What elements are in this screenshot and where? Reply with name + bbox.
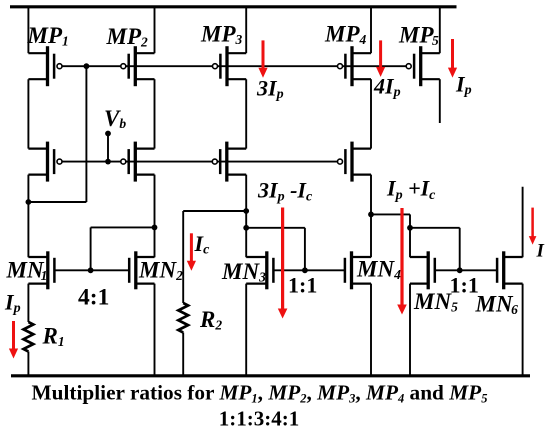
wire VDD to MP5 source (439, 7, 441, 53)
wire MN3-MN4 gate line (274, 269, 345, 271)
svg-text:1:1: 1:1 (288, 272, 317, 297)
wire MN5-MN6 gate line (435, 269, 497, 271)
wire R2 branch vertical (182, 211, 184, 303)
node MN3 drain (243, 225, 249, 231)
node Vb terminal (105, 131, 111, 137)
svg-text:4Ip: 4Ip (373, 73, 401, 100)
transistor MP1 (28, 46, 62, 86)
transistor MP2 (121, 46, 155, 86)
transistor cascode under MP2 (121, 142, 155, 182)
wire down to MN5 drain node (409, 214, 411, 227)
svg-text:Ip: Ip (455, 72, 472, 99)
wire R2 to ground (182, 333, 184, 376)
transistor MN2 (129, 251, 154, 289)
resistor R2 (178, 303, 188, 333)
node MN1 gate junction (88, 267, 94, 273)
svg-text:MP3: MP3 (200, 22, 243, 48)
wire cascode drain to MN1 drain (27, 175, 29, 258)
wire MN2 diode vertical (90, 227, 92, 270)
node MN5 gate junction (457, 267, 463, 273)
svg-text:MP1: MP1 (27, 23, 69, 49)
svg-text:3Ip: 3Ip (256, 75, 284, 102)
wire MN4 source to ground (370, 284, 372, 376)
wire diode connection MP1 (28, 201, 87, 203)
transistor MP3 (213, 46, 247, 86)
wire MP3 drain to cascode source (245, 79, 247, 148)
node MP1 gate junction (84, 63, 90, 69)
wire MN5 diode horizontal (410, 227, 460, 229)
current arrow Ip at MP5 (448, 39, 457, 78)
wire MN3 diode horizontal (246, 227, 305, 229)
svg-text:MP4: MP4 (324, 22, 367, 48)
svg-text:Multiplier ratios for MP1, MP2: Multiplier ratios for MP1, MP2, MP3, MP4… (32, 380, 488, 405)
svg-text:MN1: MN1 (6, 257, 48, 283)
wire VDD to MP1 source (27, 7, 29, 53)
current arrow Ip through R1 (9, 321, 18, 359)
wire MN2 source to ground (154, 284, 156, 376)
wire output I terminal (522, 187, 524, 258)
svg-text:1:1:3:4:1: 1:1:3:4:1 (219, 406, 299, 430)
svg-text:Ip: Ip (4, 289, 21, 316)
wire MN5 diode vertical (459, 228, 461, 270)
current arrow Ip+Ic (397, 208, 407, 315)
wire cascode drain to MN3 drain (245, 175, 247, 258)
transistor MN5 (410, 251, 435, 289)
wire MN5 source to ground (409, 284, 411, 376)
svg-text:Ic: Ic (194, 231, 211, 258)
wire MN6 source to ground (522, 284, 524, 376)
svg-text:MN2: MN2 (138, 257, 183, 283)
node MN5 drain (407, 225, 413, 231)
wire MP2 drain to cascode source (154, 79, 156, 148)
wire MP4 drain to cascode source (370, 79, 372, 148)
svg-text:MN3: MN3 (221, 259, 266, 285)
node 3Ip-Ic (243, 208, 249, 214)
wire Ip+Ic node right (371, 213, 410, 215)
node MN2 drain (152, 225, 158, 231)
wire gate-junction down (85, 66, 87, 202)
transistor cascode under MP1 (28, 142, 62, 182)
svg-text:Ip +Ic: Ip +Ic (386, 176, 436, 203)
transistor MN1 (28, 251, 54, 289)
resistor R1 (24, 322, 34, 352)
wire PMOS mirror gate line (61, 65, 408, 67)
wire MP1 drain to cascode source (27, 79, 29, 148)
transistor MN4 (345, 251, 371, 289)
current arrow 4Ip (376, 40, 385, 77)
node Ip+Ic (368, 212, 374, 218)
transistor MN6 (497, 251, 522, 289)
wire cascode drain to MN2 drain (154, 175, 156, 258)
svg-text:MP5: MP5 (398, 23, 439, 49)
current arrow 3Ip (258, 40, 267, 77)
wire cascode gate line (61, 161, 339, 163)
node MP1 drain junction (26, 199, 32, 205)
wire VDD top rail (10, 5, 457, 8)
wire node to R2 (183, 210, 246, 212)
wire MN2 diode horizontal (91, 226, 155, 228)
current arrow Ic (187, 233, 196, 270)
svg-text:1:1: 1:1 (450, 272, 479, 297)
wire MN1 source to R1 (27, 284, 29, 322)
transistor cascode under MP3 (212, 142, 246, 182)
ground rail (11, 374, 530, 377)
wire MN5 drain down (409, 228, 411, 257)
svg-text:Vb: Vb (104, 106, 126, 131)
transistor cascode under MP4 (338, 142, 372, 182)
transistor MP5 (406, 46, 440, 86)
svg-text:MN4: MN4 (356, 256, 401, 282)
transistor MP4 (338, 46, 372, 86)
node Vb gate junction (105, 159, 111, 165)
wire MN3 diode vertical (304, 228, 306, 270)
wire VDD to MP3 source (245, 7, 247, 53)
wire MN3 source to ground (245, 284, 247, 376)
svg-text:3Ip -Ic: 3Ip -Ic (257, 177, 313, 204)
wire VDD to MP4 source (370, 7, 372, 53)
wire R1 to ground (27, 352, 29, 376)
wire MP5 drain output (439, 79, 441, 123)
svg-text:MN6: MN6 (475, 292, 519, 318)
wire MN1-MN2 gate line (54, 269, 129, 271)
wire VDD to MP2 source (154, 7, 156, 53)
svg-text:R1: R1 (42, 324, 65, 350)
svg-text:R2: R2 (199, 307, 222, 333)
node MN3 gate junction (302, 267, 308, 273)
current arrow 3Ip-Ic (278, 208, 288, 319)
svg-text:I: I (536, 241, 545, 262)
current arrow I (529, 208, 537, 245)
svg-text:MP2: MP2 (106, 24, 149, 50)
transistor MN3 (246, 251, 273, 289)
svg-text:4:1: 4:1 (78, 285, 109, 311)
wire cascode drain to MN4 drain (370, 175, 372, 258)
wire Vb stub (107, 134, 109, 162)
